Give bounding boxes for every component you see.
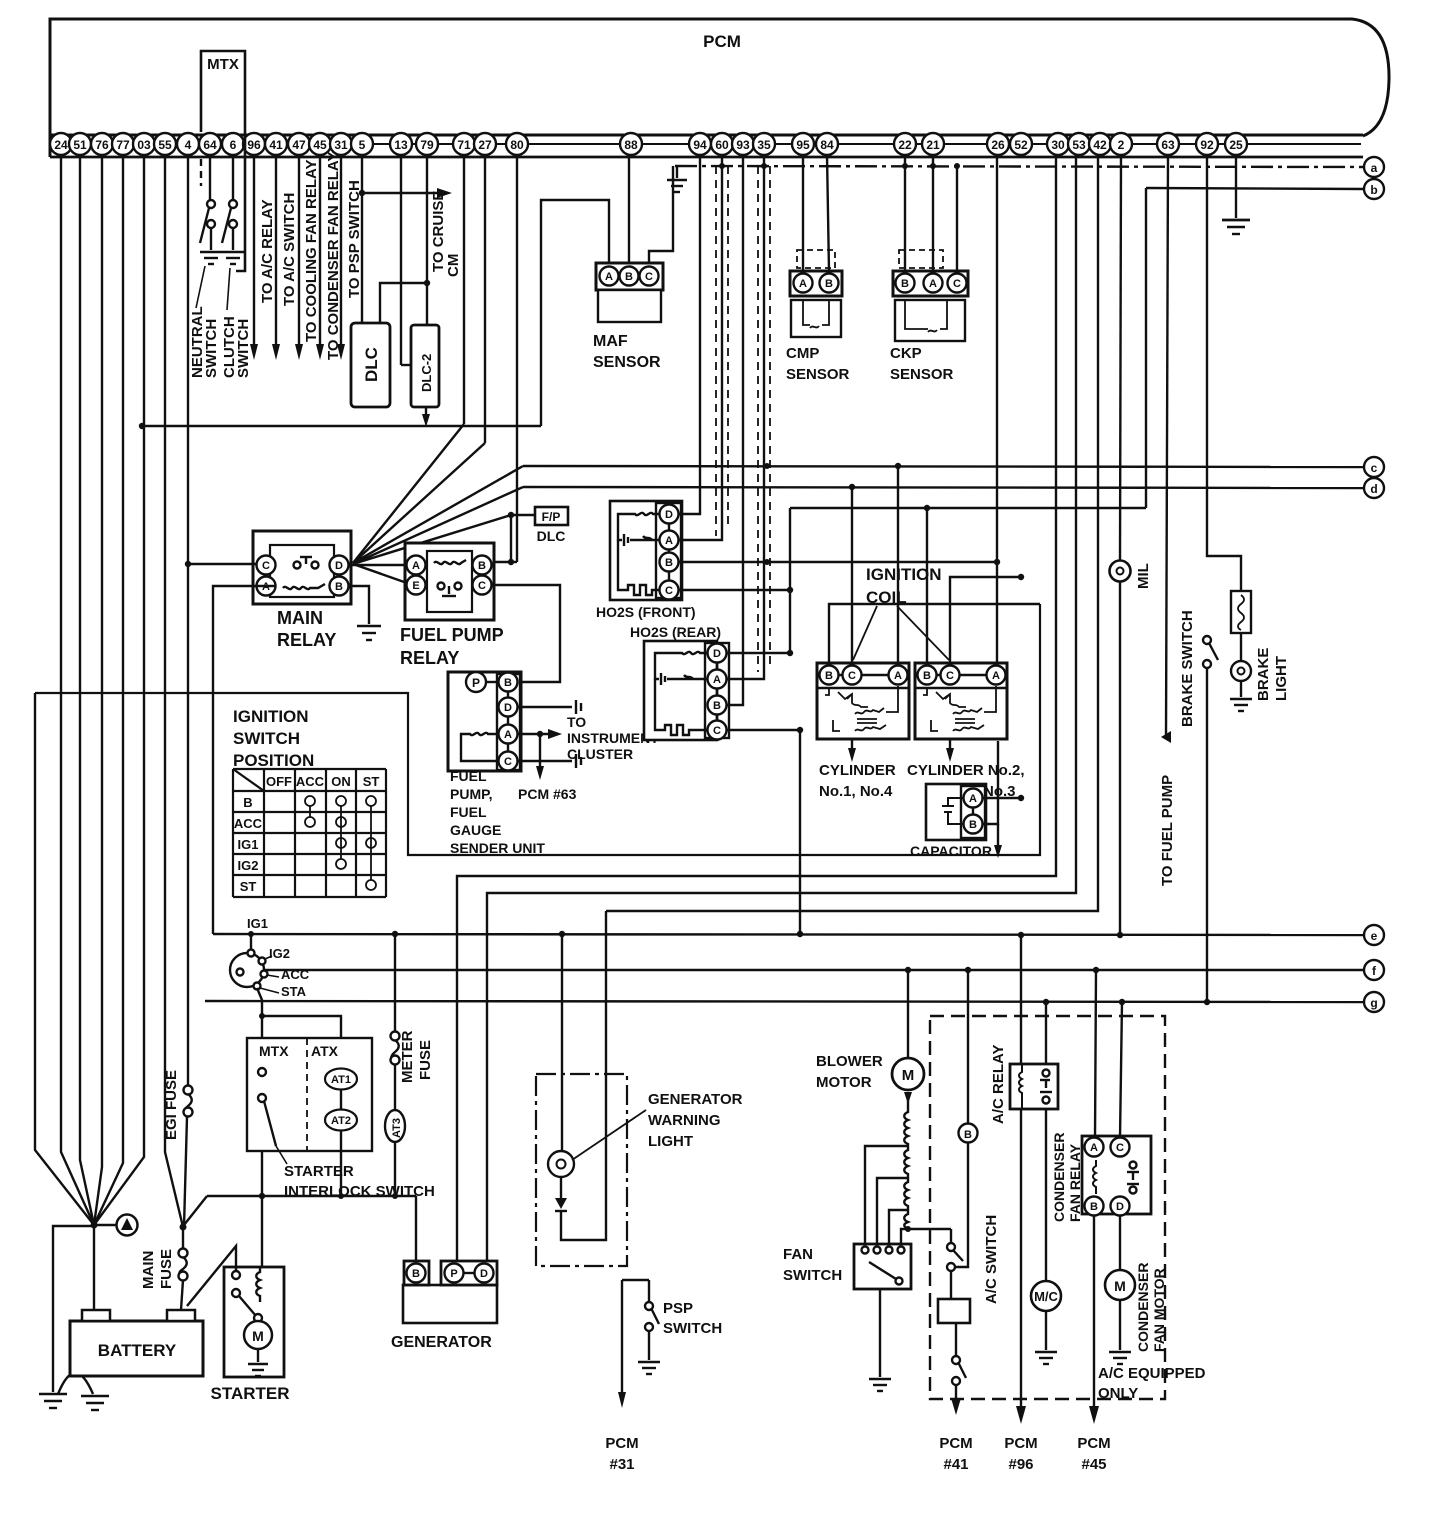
A/C switch (947, 1229, 963, 1299)
svg-text:IG2: IG2 (238, 858, 259, 873)
wire pin84 to CMP B (827, 155, 829, 271)
node b (1364, 179, 1384, 199)
wire battery positive post (93, 1225, 95, 1310)
interlock bus (184, 1193, 416, 1225)
main fuse (179, 1227, 188, 1310)
PCM pin 22 (894, 133, 916, 155)
line c (523, 463, 1364, 469)
wire fan ray D to F/P DLC (353, 515, 511, 564)
svg-text:METER: METER (399, 1030, 416, 1083)
svg-text:SENSOR: SENSOR (593, 354, 661, 371)
MTX ATX interlock box (247, 1038, 372, 1196)
label sender unit (450, 768, 545, 856)
PCM pin 24 (50, 133, 72, 155)
svg-text:B: B (713, 700, 721, 712)
MAF sensor (593, 263, 663, 371)
DLC (351, 323, 390, 407)
svg-text:d: d (1370, 482, 1377, 496)
svg-text:AT3: AT3 (391, 1118, 403, 1138)
wire ground branch (53, 1226, 94, 1392)
ground condenser fan motor (1109, 1352, 1131, 1364)
svg-text:94: 94 (693, 138, 707, 152)
PCM pin 31 (330, 133, 352, 155)
wire fan ray D to line c (353, 466, 523, 563)
CKP sensor (890, 250, 968, 383)
resistor taps (865, 1146, 908, 1246)
wire PSP feed (618, 1280, 649, 1408)
wire line e to warning lamp (561, 934, 563, 1151)
ground at line a (667, 166, 687, 192)
svg-text:M: M (252, 1328, 264, 1344)
svg-text:GAUGE: GAUGE (450, 822, 501, 838)
PCM pin 47 (288, 133, 310, 155)
svg-text:2: 2 (1118, 138, 1125, 152)
wire line g to CFR C (1120, 1002, 1122, 1138)
wire pin76 (94, 155, 102, 1225)
wire pin96 to A/C relay arrow (250, 155, 258, 360)
wire pin2 to MIL (1120, 155, 1121, 561)
svg-text:C: C (504, 756, 512, 768)
svg-text:D: D (504, 702, 512, 714)
HO2S rear (630, 624, 729, 740)
label PCM 41 (939, 1435, 972, 1473)
svg-text:MAIN: MAIN (140, 1251, 157, 1289)
wire coil2 B to line b (926, 508, 928, 665)
svg-text:M/C: M/C (1034, 1289, 1058, 1304)
label EGI fuse (163, 1070, 180, 1140)
wire pin77 (94, 155, 123, 1225)
svg-text:c: c (1371, 461, 1378, 475)
svg-text:FUEL PUMP: FUEL PUMP (400, 625, 504, 645)
svg-text:ATX: ATX (311, 1043, 339, 1059)
node battery positive fan (91, 1222, 98, 1229)
PCM pin 35 (753, 133, 775, 155)
svg-text:HO2S (FRONT): HO2S (FRONT) (596, 604, 696, 620)
neutral switch (200, 200, 215, 250)
ground brake light (1230, 699, 1252, 711)
ignition switch (230, 950, 268, 990)
PCM pin 25 (1225, 133, 1247, 155)
svg-text:A: A (799, 278, 807, 290)
label PCM 45 (1077, 1435, 1110, 1473)
svg-text:PCM #63: PCM #63 (518, 786, 577, 802)
wire pin24 (61, 155, 94, 1225)
svg-text:FUSE: FUSE (158, 1249, 175, 1289)
svg-text:63: 63 (1161, 138, 1175, 152)
wire pin30 to generator P (457, 155, 1056, 1261)
wire HO2S front C to node790 (678, 587, 793, 593)
ground main relay B (348, 586, 381, 640)
svg-text:LIGHT: LIGHT (1273, 656, 1290, 701)
svg-text:TO FUEL PUMP: TO FUEL PUMP (1159, 775, 1176, 886)
EGI fuse (184, 1086, 193, 1228)
svg-text:03: 03 (137, 138, 151, 152)
line d (523, 487, 1364, 488)
wire fuel pump relay C to sender B (491, 585, 560, 682)
svg-text:CYLINDER No.2,: CYLINDER No.2, (907, 762, 1025, 779)
svg-text:25: 25 (1229, 138, 1243, 152)
wire DLC-2 bottom arrow to bus (422, 407, 430, 427)
svg-text:C: C (953, 278, 961, 290)
ground MC (1035, 1352, 1057, 1364)
wire HO2S front B to pin26 column (678, 559, 1000, 565)
svg-text:27: 27 (478, 138, 492, 152)
pointer to coil 1 (853, 606, 877, 660)
svg-text:ST: ST (240, 879, 257, 894)
svg-text:35: 35 (757, 138, 771, 152)
svg-text:PCM: PCM (939, 1435, 972, 1452)
svg-text:A: A (969, 793, 977, 805)
wire line f to CFR A (1095, 970, 1096, 1138)
PCM pin 4 (177, 133, 199, 155)
svg-text:PUMP,: PUMP, (450, 786, 493, 802)
node d (1364, 478, 1384, 498)
svg-text:P: P (450, 1268, 457, 1280)
label ignition coil (866, 565, 942, 607)
wire battery loop W1 (35, 604, 1040, 855)
blower motor wire (907, 970, 909, 1058)
rightside (1110, 155, 1385, 1012)
svg-text:5: 5 (359, 138, 366, 152)
wire battery to starter (187, 1246, 236, 1306)
svg-text:RELAY: RELAY (277, 630, 336, 650)
warning lamp (548, 1151, 574, 1177)
PCM pin 79 (416, 133, 438, 155)
MTX bracket (201, 51, 245, 271)
AT3 (385, 1110, 405, 1196)
svg-text:C: C (478, 580, 486, 592)
PCM pin 53 (1068, 133, 1090, 155)
svg-text:FUSE: FUSE (417, 1040, 434, 1080)
label to fuel pump (1159, 775, 1176, 886)
PCM pin 95 (792, 133, 814, 155)
PCM top border (50, 19, 1389, 157)
wire pin92 brake feed (1207, 155, 1241, 591)
leftcol (35, 155, 290, 1410)
wire battery feed left (35, 693, 94, 1225)
svg-text:IG1: IG1 (247, 916, 268, 931)
svg-text:DLC-2: DLC-2 (419, 354, 434, 392)
sensors (448, 155, 1364, 856)
PCM pin 45 (309, 133, 331, 155)
starter (224, 1267, 284, 1377)
table headers (266, 774, 379, 789)
PCM pin 52 (1010, 133, 1032, 155)
ground PSP (638, 1362, 660, 1374)
svg-text:C: C (1116, 1142, 1124, 1154)
starter motor (244, 1314, 272, 1362)
circled B splice (955, 970, 978, 1267)
blower motor (892, 1058, 924, 1104)
svg-text:A: A (929, 278, 937, 290)
svg-text:A/C SWITCH: A/C SWITCH (983, 1215, 1000, 1304)
label blower motor (816, 1053, 883, 1091)
PCM pin 77 (112, 133, 134, 155)
node a (1364, 157, 1384, 177)
svg-text:M: M (1114, 1278, 1126, 1294)
node c (1364, 457, 1384, 477)
label PCM 96 (1004, 1435, 1037, 1473)
diode (555, 1177, 567, 1211)
condenser fan motor (1105, 1270, 1135, 1350)
wire coil1 C to line d (849, 484, 855, 665)
svg-text:C: C (645, 271, 653, 283)
line b route (790, 188, 1364, 511)
svg-text:STARTER: STARTER (284, 1163, 354, 1180)
fan switch ground (869, 1289, 891, 1391)
svg-text:POSITION: POSITION (233, 751, 314, 770)
svg-text:A: A (665, 535, 673, 547)
line e IG1 bus (213, 931, 1364, 938)
brake light bulb (1231, 633, 1251, 697)
svg-text:HO2S (REAR): HO2S (REAR) (630, 624, 721, 640)
svg-text:GENERATOR: GENERATOR (648, 1091, 743, 1108)
svg-text:B: B (964, 1129, 972, 1141)
DLC-2 (411, 325, 439, 407)
svg-text:64: 64 (203, 138, 217, 152)
label condenser fan motor (1135, 1263, 1167, 1352)
label starter interlock switch (284, 1163, 435, 1200)
MIL (1110, 561, 1131, 936)
svg-text:53: 53 (1072, 138, 1086, 152)
svg-text:B: B (901, 278, 909, 290)
svg-text:BRAKE: BRAKE (1255, 648, 1272, 701)
svg-text:IGNITION: IGNITION (233, 707, 309, 726)
svg-text:TO COOLING FAN RELAY: TO COOLING FAN RELAY (303, 159, 320, 342)
svg-text:M: M (902, 1067, 915, 1084)
svg-text:#41: #41 (943, 1456, 968, 1473)
svg-text:ST: ST (363, 774, 380, 789)
bottomright (783, 935, 1206, 1473)
svg-text:BATTERY: BATTERY (98, 1341, 177, 1360)
wire CFR D to condenser fan motor (1119, 1215, 1121, 1270)
meter fuse wire (391, 934, 400, 1110)
svg-text:60: 60 (715, 138, 729, 152)
wire bus y426 (139, 200, 609, 429)
pins (50, 133, 1247, 155)
wire pin22 to CKP B (904, 155, 906, 271)
thermo switch (951, 1323, 966, 1415)
generator warning light box (536, 1074, 627, 1266)
svg-text:ACC: ACC (234, 816, 263, 831)
PCM pin 41 (265, 133, 287, 155)
PCM pin 6 (222, 133, 244, 155)
svg-text:B: B (412, 1268, 420, 1280)
wire pin80 down (508, 155, 517, 565)
svg-text:FUEL: FUEL (450, 768, 487, 784)
label to instrument cluster (567, 714, 659, 762)
line f ACC bus (264, 967, 1364, 973)
svg-text:AT1: AT1 (331, 1074, 351, 1086)
clutch switch (222, 200, 237, 250)
svg-text:IGNITION: IGNITION (866, 565, 942, 584)
topleft (139, 51, 609, 429)
fan switch (854, 1244, 911, 1289)
svg-text:71: 71 (457, 138, 471, 152)
svg-text:P: P (472, 676, 480, 690)
node EGI fan (180, 1224, 187, 1231)
ignition coil 2 (915, 663, 1007, 739)
M/C compressor clutch (1031, 1281, 1061, 1350)
label meter fuse (399, 1030, 434, 1083)
svg-text:51: 51 (73, 138, 87, 152)
wire HO2S rear D to line b (726, 508, 793, 656)
svg-text:52: 52 (1014, 138, 1028, 152)
wire MAF C to ground node (649, 166, 673, 263)
svg-text:MIL: MIL (1135, 563, 1152, 589)
svg-text:42: 42 (1093, 138, 1107, 152)
wire sender A junction (517, 729, 562, 739)
wire STA to interlock (257, 988, 262, 1196)
svg-text:C: C (665, 585, 673, 597)
PCM pin 42 (1089, 133, 1111, 155)
svg-text:PCM: PCM (703, 32, 741, 51)
svg-text:MTX: MTX (259, 1043, 289, 1059)
svg-text:26: 26 (991, 138, 1005, 152)
PCM pin 03 (133, 133, 155, 155)
fuel pump fuel gauge sender unit (448, 672, 521, 771)
svg-text:FAN MOTOR: FAN MOTOR (1151, 1268, 1167, 1352)
label neutral switch (189, 306, 220, 378)
svg-text:B: B (243, 795, 252, 810)
PCM connector band bottom line (50, 156, 1363, 159)
ground strap arc (58, 1373, 93, 1394)
svg-text:MAIN: MAIN (277, 608, 323, 628)
wire pin51 (80, 155, 94, 1225)
svg-text:13: 13 (394, 138, 408, 152)
svg-text:CAPACITOR: CAPACITOR (910, 843, 992, 859)
svg-text:77: 77 (116, 138, 130, 152)
svg-text:E: E (412, 580, 419, 592)
svg-text:#45: #45 (1081, 1456, 1106, 1473)
A/C equipped dashed box (930, 1016, 1165, 1399)
condenser fan relay (1082, 1136, 1151, 1216)
label generator warning light (648, 1091, 743, 1150)
wire pin45 to condenser fan relay arrow (316, 155, 324, 360)
wire pin21 to CKP A (932, 155, 934, 271)
svg-text:C: C (262, 560, 270, 572)
shield dashes pin60 (716, 166, 728, 536)
pointer to coil 2 (897, 606, 949, 660)
wire pin4 EGI fuse (185, 155, 191, 1086)
label brake switch (1179, 610, 1196, 727)
svg-text:B: B (1090, 1201, 1098, 1213)
svg-text:#31: #31 (609, 1456, 634, 1473)
PCM pin 2 (1110, 133, 1132, 155)
PSP switch (645, 1280, 659, 1360)
svg-text:45: 45 (313, 138, 327, 152)
CMP sensor (786, 250, 850, 383)
svg-text:41: 41 (269, 138, 283, 152)
svg-text:24: 24 (54, 138, 68, 152)
svg-text:93: 93 (736, 138, 750, 152)
svg-text:AT2: AT2 (331, 1115, 351, 1127)
PCM pin 55 (154, 133, 176, 155)
wire pin4 to main relay C (188, 563, 257, 565)
svg-text:FUEL: FUEL (450, 804, 487, 820)
wire interlock to generator B (415, 1196, 417, 1261)
svg-text:DLC: DLC (537, 528, 566, 544)
PCM pin 5 (351, 133, 373, 155)
svg-text:PCM: PCM (605, 1435, 638, 1452)
wire to cruise (362, 188, 452, 198)
wire lamp loop to W3 (561, 911, 606, 1240)
wire line g to A/C relay contact (1045, 1002, 1047, 1064)
PCM pin 88 (620, 133, 642, 155)
PCM pin 51 (69, 133, 91, 155)
wire fan ray D to line d (353, 487, 523, 564)
svg-text:LIGHT: LIGHT (648, 1133, 693, 1150)
relays (188, 155, 568, 934)
svg-text:FAN RELAY: FAN RELAY (1067, 1143, 1083, 1222)
label A/C switch (983, 1215, 1000, 1304)
svg-text:STARTER: STARTER (210, 1384, 289, 1403)
svg-text:88: 88 (624, 138, 638, 152)
wire main relay A down to IG1 bus (213, 586, 275, 934)
wire F/P node to fuel pump relay B (481, 515, 511, 562)
label A/C equipped only (1098, 1365, 1206, 1402)
svg-text:No.1, No.4: No.1, No.4 (819, 783, 893, 800)
line g bus (205, 999, 1364, 1005)
svg-text:INTERLOCK SWITCH: INTERLOCK SWITCH (284, 1183, 435, 1200)
wire pin25 ground (1222, 155, 1250, 234)
svg-text:CKP: CKP (890, 345, 922, 362)
F/P DLC (508, 507, 568, 544)
svg-text:A: A (894, 670, 902, 682)
wire D to fuel pump relay E (353, 564, 407, 583)
svg-text:CYLINDER: CYLINDER (819, 762, 896, 779)
svg-text:SWITCH: SWITCH (663, 1320, 722, 1337)
wire capacitor A to pin52 column (982, 795, 1024, 801)
svg-text:A: A (1090, 1142, 1098, 1154)
wire pin47 to cooling fan relay arrow (295, 155, 303, 360)
generator (391, 1261, 497, 1351)
svg-text:B: B (825, 670, 833, 682)
PCM pin 71 (453, 133, 475, 155)
svg-text:SENSOR: SENSOR (890, 366, 954, 383)
PCM pin 94 (689, 133, 711, 155)
ground neutral switch (200, 252, 222, 264)
svg-text:F/P: F/P (542, 510, 561, 524)
svg-text:b: b (1370, 183, 1377, 197)
node e (1364, 925, 1384, 945)
ignition coil 1 (817, 663, 909, 739)
midbus (35, 155, 1364, 1473)
svg-text:22: 22 (898, 138, 912, 152)
PCM pin 96 (243, 133, 265, 155)
svg-text:CONDENSER: CONDENSER (1135, 1263, 1151, 1352)
table row labels (234, 795, 263, 894)
wire coil1 A to line c (895, 463, 901, 665)
svg-text:SENSOR: SENSOR (786, 366, 850, 383)
PCM pin 80 (506, 133, 528, 155)
svg-text:ON: ON (331, 774, 351, 789)
svg-text:ONLY: ONLY (1098, 1385, 1138, 1402)
PCM pin 64 (199, 133, 221, 155)
svg-text:95: 95 (796, 138, 810, 152)
svg-text:MOTOR: MOTOR (816, 1074, 872, 1091)
label clutch switch (221, 316, 252, 378)
wire pin88 to MAF B (628, 155, 630, 263)
wire A/C relay coil to PCM96 (1016, 1109, 1026, 1424)
label condenser fan relay (1051, 1133, 1083, 1222)
svg-text:EGI FUSE: EGI FUSE (163, 1070, 180, 1140)
label MIL (1135, 563, 1152, 589)
wire pin03 (94, 155, 144, 1225)
wire pin79 to DLC-2 (380, 155, 430, 325)
wire sender D to instrument cluster (517, 700, 581, 714)
wire pin64 stub dashed (200, 159, 202, 186)
